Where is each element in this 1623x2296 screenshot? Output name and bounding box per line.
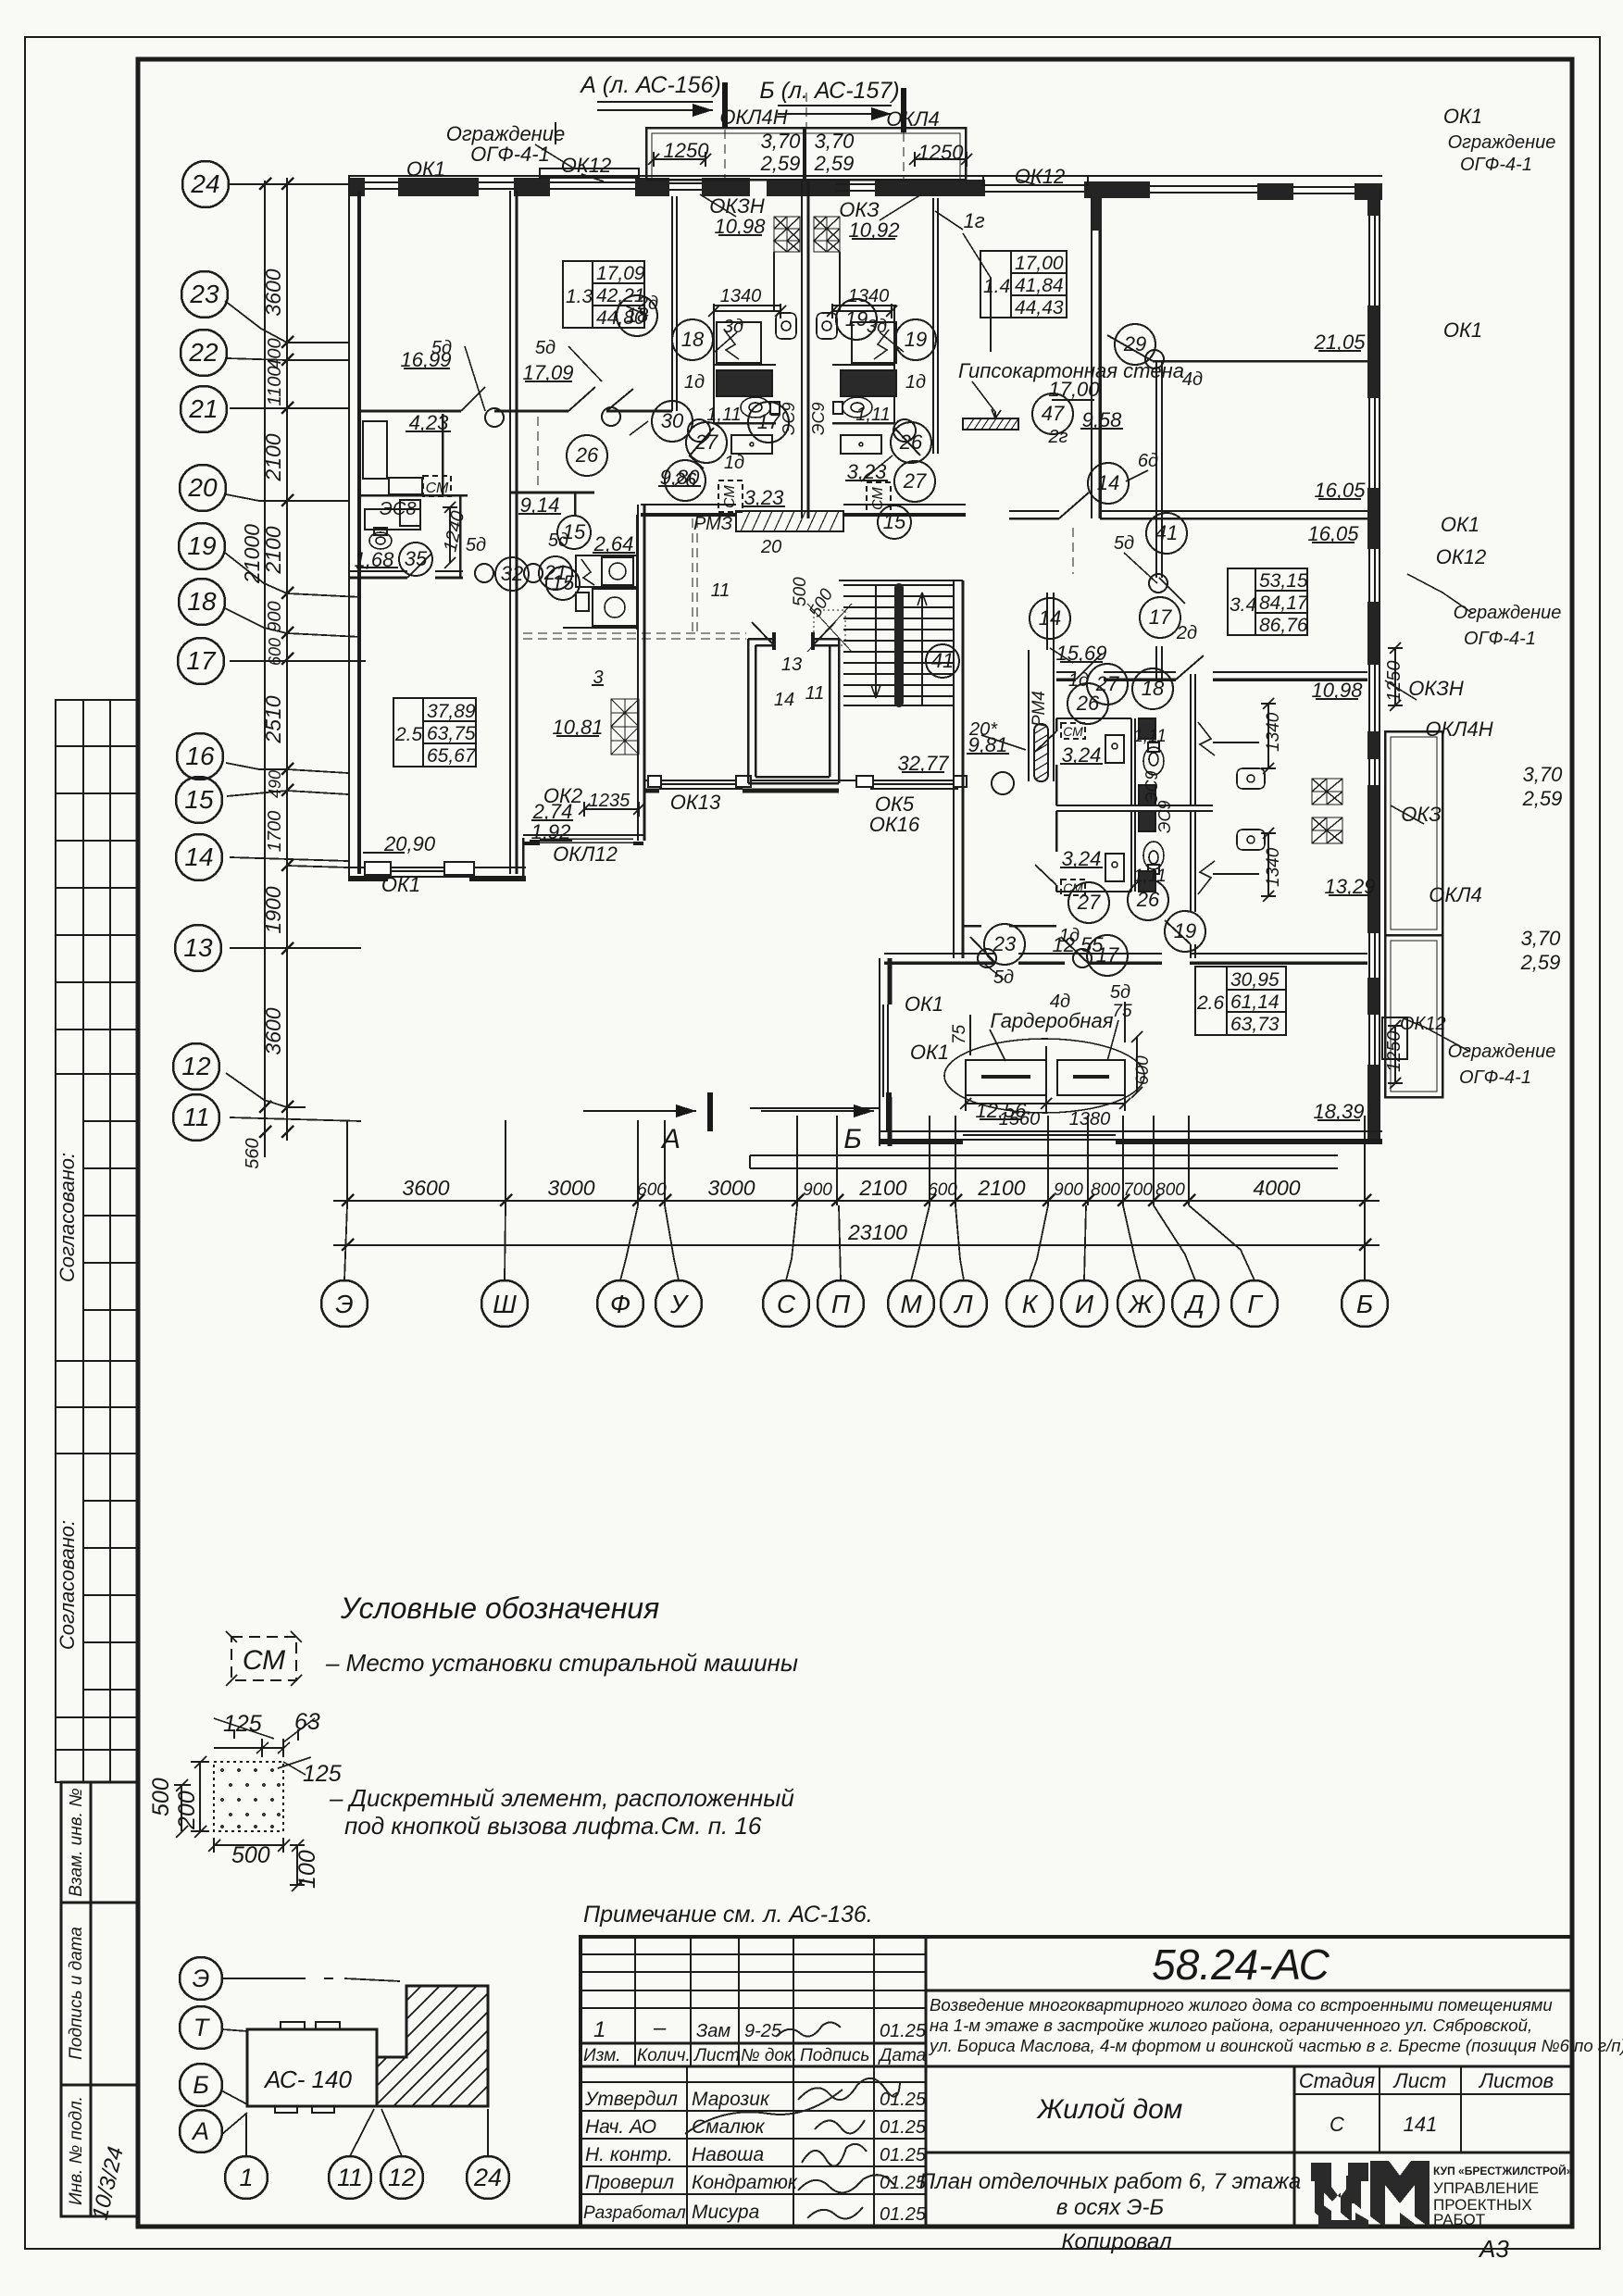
svg-text:ОКЛ4Н: ОКЛ4Н bbox=[719, 106, 787, 129]
svg-text:2д: 2д bbox=[637, 293, 658, 314]
svg-text:23: 23 bbox=[993, 932, 1017, 955]
wall 9,14 bbox=[510, 492, 594, 494]
svg-text:2,59: 2,59 bbox=[1520, 951, 1561, 974]
svg-text:41: 41 bbox=[931, 649, 954, 672]
party wall 2.5/1.3 bbox=[509, 191, 511, 874]
svg-text:24: 24 bbox=[473, 2164, 502, 2191]
svg-text:П: П bbox=[831, 1290, 851, 1318]
kitchen bottom wall with window OKL12 bbox=[523, 834, 643, 836]
svg-text:23100: 23100 bbox=[847, 1220, 907, 1244]
svg-text:800: 800 bbox=[1091, 1180, 1120, 1200]
svg-text:29: 29 bbox=[1123, 332, 1146, 356]
svg-text:ОКЛ4: ОКЛ4 bbox=[1429, 883, 1481, 906]
exterior top wall outer line bbox=[348, 93, 1442, 1168]
svg-text:63,73: 63,73 bbox=[1230, 1014, 1280, 1035]
svg-text:2.6: 2.6 bbox=[1196, 992, 1225, 1014]
svg-text:500: 500 bbox=[791, 577, 810, 606]
stamp rows above bottom cells bbox=[56, 1717, 138, 1782]
svg-text:Проверил: Проверил bbox=[585, 2172, 674, 2193]
svg-text:Инв. № подл.: Инв. № подл. bbox=[67, 2096, 86, 2205]
wall stair to apt2.6 bbox=[953, 792, 955, 958]
svg-text:20: 20 bbox=[187, 473, 218, 502]
svg-text:ОК1: ОК1 bbox=[1443, 318, 1482, 342]
svg-text:37,89: 37,89 bbox=[427, 701, 476, 722]
svg-text:3,70: 3,70 bbox=[1521, 927, 1562, 950]
svg-text:СМ: СМ bbox=[1063, 724, 1083, 739]
section mark A top bbox=[579, 72, 906, 1154]
svg-text:Ж: Ж bbox=[1127, 1290, 1155, 1318]
svg-text:А: А bbox=[191, 2117, 209, 2145]
svg-text:КУП «БРЕСТЖИЛСТРОЙ»: КУП «БРЕСТЖИЛСТРОЙ» bbox=[1433, 2164, 1573, 2177]
svg-text:ул. Бориса Маслова, 4-м фортом: ул. Бориса Маслова, 4-м фортом и воинско… bbox=[928, 2036, 1623, 2055]
key plan leaders bbox=[221, 1978, 488, 2156]
svg-text:600: 600 bbox=[266, 638, 284, 666]
svg-text:100: 100 bbox=[294, 1850, 320, 1889]
svg-text:Н. контр.: Н. контр. bbox=[585, 2144, 673, 2165]
fixtures: kitchen 2,64 block bbox=[576, 555, 637, 626]
RM4 shaft bbox=[1028, 650, 1030, 781]
svg-text:5д: 5д bbox=[1110, 982, 1130, 1003]
svg-text:44,43: 44,43 bbox=[1015, 297, 1064, 318]
svg-text:26: 26 bbox=[1076, 692, 1100, 715]
svg-text:18: 18 bbox=[187, 587, 217, 616]
left dimension chain line bbox=[225, 178, 366, 1157]
svg-text:1.4: 1.4 bbox=[983, 276, 1010, 297]
vent stack bath right bbox=[814, 217, 840, 252]
svg-text:3000: 3000 bbox=[707, 1176, 755, 1200]
top wall piers bbox=[348, 178, 1382, 200]
plan text labels bbox=[355, 105, 1564, 1129]
svg-text:Стадия: Стадия bbox=[1299, 2069, 1376, 2092]
svg-text:ОК1: ОК1 bbox=[905, 992, 943, 1016]
svg-text:27: 27 bbox=[694, 430, 718, 454]
svg-text:Подпись и дата: Подпись и дата bbox=[67, 1927, 86, 2060]
svg-text:24: 24 bbox=[190, 169, 219, 198]
svg-text:5д: 5д bbox=[993, 967, 1014, 988]
svg-text:ОКЛ4: ОКЛ4 bbox=[886, 107, 939, 131]
svg-text:1,11: 1,11 bbox=[855, 405, 890, 425]
svg-text:1100: 1100 bbox=[265, 366, 285, 406]
svg-text:125: 125 bbox=[223, 1711, 262, 1737]
svg-text:3000: 3000 bbox=[547, 1176, 594, 1200]
svg-text:1,11: 1,11 bbox=[1133, 867, 1167, 886]
svg-text:Ограждение: Ограждение bbox=[1454, 603, 1562, 623]
svg-text:900: 900 bbox=[265, 601, 285, 631]
svg-text:Гардеробная: Гардеробная bbox=[990, 1009, 1113, 1032]
right bottom balcony slab OK12 bbox=[1382, 1017, 1407, 1059]
wall 12,55 apt 2.6 top bbox=[884, 953, 1367, 955]
svg-text:17,00: 17,00 bbox=[1015, 253, 1064, 274]
svg-text:01.25: 01.25 bbox=[880, 2021, 927, 2041]
svg-text:500: 500 bbox=[148, 1778, 174, 1816]
svg-text:3,70: 3,70 bbox=[761, 130, 802, 153]
svg-text:14: 14 bbox=[774, 690, 794, 710]
hatched gypsum wall piece bbox=[963, 418, 1018, 430]
fixtures: bath 2.5 bbox=[363, 421, 451, 549]
svg-text:01.25: 01.25 bbox=[880, 2090, 927, 2110]
svg-text:1: 1 bbox=[239, 2164, 253, 2191]
svg-text:35: 35 bbox=[405, 547, 428, 570]
svg-text:1250: 1250 bbox=[918, 141, 965, 164]
svg-text:1235: 1235 bbox=[589, 791, 630, 811]
revision table bbox=[581, 1953, 926, 1955]
stamp cell Инв № подл bbox=[61, 2085, 137, 2216]
svg-text:С: С bbox=[777, 1290, 796, 1318]
svg-text:9-25: 9-25 bbox=[744, 2021, 782, 2041]
svg-text:Б: Б bbox=[843, 1124, 862, 1154]
svg-text:Копировал: Копировал bbox=[1061, 2229, 1172, 2254]
stair arrows bbox=[918, 593, 927, 705]
key plan axis circles bbox=[180, 1957, 509, 2199]
svg-text:К: К bbox=[1022, 1290, 1039, 1318]
legend washing machine symbol bbox=[226, 1631, 302, 1686]
svg-text:ОК1: ОК1 bbox=[910, 1041, 949, 1064]
svg-text:РМ4: РМ4 bbox=[1030, 691, 1049, 727]
left exterior wall bbox=[348, 176, 350, 880]
top wall windows bbox=[365, 182, 1355, 193]
svg-text:Жилой дом: Жилой дом bbox=[1036, 2094, 1183, 2125]
svg-text:1.3: 1.3 bbox=[566, 286, 593, 307]
svg-text:У: У bbox=[669, 1290, 690, 1318]
svg-text:1340: 1340 bbox=[1264, 847, 1283, 887]
top balcony dims bbox=[443, 152, 1403, 1111]
svg-text:30,95: 30,95 bbox=[1230, 969, 1280, 991]
right cells bbox=[926, 1990, 1572, 1992]
svg-text:4д: 4д bbox=[1182, 369, 1203, 390]
svg-text:Г: Г bbox=[1247, 1290, 1263, 1318]
svg-text:Б (л. АС-157): Б (л. АС-157) bbox=[759, 78, 899, 104]
svg-text:– Дискретный элемент, располож: – Дискретный элемент, расположенный bbox=[329, 1784, 794, 1812]
door leaves bbox=[407, 387, 1204, 963]
svg-text:1340: 1340 bbox=[720, 286, 762, 306]
stamp cell Согласовано 2 bbox=[56, 1454, 138, 1717]
svg-text:Разработал: Разработал bbox=[583, 2203, 686, 2223]
vent duct walls bath bbox=[773, 252, 775, 311]
svg-text:Э: Э bbox=[335, 1290, 353, 1318]
svg-text:2100: 2100 bbox=[858, 1176, 906, 1200]
wardrobe closets apt 2.6 bbox=[944, 1039, 1144, 1113]
svg-text:ЭС9: ЭС9 bbox=[809, 403, 828, 436]
right block party wall x1179 bbox=[1091, 194, 1092, 518]
section mark B bottom bbox=[761, 1110, 874, 1112]
interior: partition y444 rooms 16,99/17,09 bbox=[361, 410, 672, 413]
svg-text:53,15: 53,15 bbox=[1259, 570, 1308, 592]
svg-text:С: С bbox=[1330, 2113, 1344, 2136]
svg-text:01.25: 01.25 bbox=[880, 2173, 927, 2193]
bath 1.3 interior walls bbox=[714, 305, 780, 306]
signature table bbox=[581, 2081, 926, 2083]
svg-text:11: 11 bbox=[182, 1103, 209, 1131]
svg-text:19: 19 bbox=[905, 328, 927, 351]
svg-text:Ш: Ш bbox=[493, 1290, 517, 1318]
svg-text:Д: Д bbox=[1183, 1290, 1205, 1318]
svg-text:1250: 1250 bbox=[664, 139, 710, 162]
svg-text:1250: 1250 bbox=[1384, 1031, 1405, 1073]
svg-text:1,11: 1,11 bbox=[1133, 727, 1167, 746]
svg-text:2д: 2д bbox=[1176, 623, 1197, 643]
right balcony OKL4N bbox=[1385, 731, 1442, 935]
svg-text:Примечание см. л. АС-136.: Примечание см. л. АС-136. bbox=[583, 1902, 873, 1928]
svg-text:Навоша: Навоша bbox=[692, 2144, 764, 2165]
svg-text:47: 47 bbox=[1042, 402, 1065, 425]
svg-text:ОКЛ4Н: ОКЛ4Н bbox=[1425, 717, 1492, 741]
stamp mid rows bbox=[56, 1361, 138, 1454]
svg-text:21000: 21000 bbox=[240, 524, 264, 584]
svg-text:РМЗ: РМЗ bbox=[693, 514, 732, 534]
svg-text:11: 11 bbox=[711, 580, 730, 601]
svg-text:Дата: Дата bbox=[878, 2046, 926, 2065]
svg-text:41: 41 bbox=[1155, 521, 1178, 544]
svg-text:800: 800 bbox=[1155, 1180, 1185, 1200]
svg-text:1340: 1340 bbox=[848, 286, 890, 306]
svg-text:ЭС9: ЭС9 bbox=[780, 403, 798, 436]
svg-text:ОК12: ОК12 bbox=[1015, 165, 1066, 188]
handwritten signatures bbox=[685, 2022, 900, 2218]
title block outer bbox=[581, 1937, 1572, 2227]
title block texts bbox=[583, 1902, 1623, 2263]
svg-text:Зам: Зам bbox=[696, 2021, 730, 2041]
bottom dimension chain bbox=[333, 1116, 1380, 1280]
corridor bottom wall with windows OK13 OK5 bbox=[644, 780, 966, 781]
svg-text:ЭС9: ЭС9 bbox=[1142, 771, 1161, 805]
svg-text:14: 14 bbox=[1039, 606, 1061, 630]
svg-text:700: 700 bbox=[1123, 1180, 1153, 1200]
right exterior wall bbox=[1379, 188, 1380, 1144]
balcony OKL4N top center bbox=[646, 128, 966, 180]
stair treads bbox=[843, 585, 954, 705]
svg-text:11: 11 bbox=[337, 2164, 363, 2191]
svg-text:3д: 3д bbox=[723, 317, 743, 337]
svg-text:Мисура: Мисура bbox=[692, 2202, 759, 2223]
apartment box 3.4 bbox=[1228, 568, 1309, 636]
svg-text:26: 26 bbox=[575, 443, 599, 467]
svg-text:СМ: СМ bbox=[1063, 880, 1083, 895]
svg-text:600: 600 bbox=[928, 1180, 957, 1200]
svg-text:2,59: 2,59 bbox=[814, 152, 855, 175]
svg-text:12: 12 bbox=[388, 2164, 416, 2191]
svg-text:86,76: 86,76 bbox=[1259, 615, 1308, 636]
svg-text:22: 22 bbox=[188, 338, 218, 367]
svg-text:СМ: СМ bbox=[426, 480, 449, 496]
corridor top wall RM3 bbox=[641, 504, 966, 505]
svg-text:75: 75 bbox=[1112, 1002, 1132, 1021]
svg-text:ОК1: ОК1 bbox=[381, 873, 420, 896]
wall x1252 segment 2 bbox=[1156, 646, 1162, 680]
svg-text:– Место установки стиральной м: – Место установки стиральной машины bbox=[325, 1649, 798, 1677]
svg-text:ОК12: ОК12 bbox=[1400, 1014, 1446, 1034]
svg-text:14: 14 bbox=[184, 842, 213, 871]
right wall piers bbox=[1367, 188, 1380, 1144]
svg-text:500: 500 bbox=[231, 1842, 270, 1868]
logo КУП Брестжилстрой bbox=[1311, 2161, 1429, 2227]
left extension lines to plan bbox=[230, 184, 366, 1121]
svg-text:3,70: 3,70 bbox=[1523, 763, 1564, 786]
svg-text:ЭС8: ЭС8 bbox=[380, 499, 416, 519]
svg-text:№ док.: № док. bbox=[741, 2046, 797, 2065]
label underlines bbox=[356, 235, 1371, 1120]
svg-text:200: 200 bbox=[174, 1791, 200, 1830]
svg-text:1,11: 1,11 bbox=[706, 405, 741, 425]
svg-text:3,70: 3,70 bbox=[815, 130, 855, 153]
svg-text:3600: 3600 bbox=[261, 1007, 285, 1054]
svg-text:400: 400 bbox=[265, 338, 285, 368]
legend dims bbox=[214, 1739, 290, 1757]
svg-text:32: 32 bbox=[501, 562, 523, 585]
svg-text:ОКЛ12: ОКЛ12 bbox=[553, 842, 618, 866]
svg-text:3600: 3600 bbox=[261, 268, 285, 316]
kitchen right / corridor left wall bbox=[637, 505, 639, 841]
svg-text:Лист: Лист bbox=[1392, 2069, 1447, 2092]
svg-text:6д: 6д bbox=[1138, 451, 1158, 471]
svg-text:А (л. АС-156): А (л. АС-156) bbox=[579, 72, 721, 98]
svg-text:600: 600 bbox=[1133, 1055, 1153, 1085]
dashed projection lines bbox=[523, 93, 1073, 639]
svg-text:75: 75 bbox=[950, 1024, 969, 1044]
svg-text:5д: 5д bbox=[548, 530, 568, 551]
lower terrace thin band bbox=[750, 1155, 1338, 1168]
svg-text:58.24-АС: 58.24-АС bbox=[1152, 1940, 1330, 1989]
svg-text:Марозик: Марозик bbox=[692, 2089, 770, 2110]
bottom extension lines bbox=[347, 1116, 1365, 1205]
RM4 hatched duct bbox=[1034, 724, 1048, 781]
svg-text:Возведение многоквартирного жи: Возведение многоквартирного жилого дома … bbox=[930, 1995, 1553, 2015]
svg-text:1д: 1д bbox=[724, 453, 744, 473]
svg-text:01.25: 01.25 bbox=[880, 2204, 927, 2225]
svg-text:63: 63 bbox=[294, 1709, 320, 1735]
svg-text:Ф: Ф bbox=[610, 1290, 630, 1318]
svg-text:Ограждение: Ограждение bbox=[1448, 132, 1556, 153]
svg-text:21: 21 bbox=[543, 561, 567, 584]
svg-text:РАБОТ: РАБОТ bbox=[1433, 2211, 1485, 2228]
svg-text:2100: 2100 bbox=[261, 526, 285, 574]
stamp cell Взам инв № bbox=[61, 1782, 137, 1903]
apartment box 1.4 bbox=[980, 251, 1067, 318]
svg-text:План отделочных работ 6, 7 эта: План отделочных работ 6, 7 этажа bbox=[919, 2169, 1301, 2194]
apartment data boxes bbox=[393, 251, 1309, 1035]
svg-text:4000: 4000 bbox=[1253, 1176, 1300, 1200]
svg-text:2,59: 2,59 bbox=[1522, 787, 1563, 810]
vent stack right block upper bbox=[1312, 779, 1342, 843]
svg-text:А3: А3 bbox=[1478, 2235, 1509, 2263]
svg-text:Взам. инв. №: Взам. инв. № bbox=[67, 1788, 86, 1897]
leader circles small bbox=[475, 350, 1167, 967]
party wall 1.3/1.4 bbox=[801, 180, 803, 518]
svg-text:19: 19 bbox=[187, 531, 216, 560]
svg-text:СМ: СМ bbox=[870, 487, 886, 510]
svg-text:–: – bbox=[653, 2015, 667, 2040]
svg-text:Ограждение: Ограждение bbox=[1448, 1042, 1556, 1062]
section mark A bottom bbox=[583, 1110, 696, 1112]
svg-text:Лист: Лист bbox=[693, 2046, 740, 2065]
svg-text:17,00: 17,00 bbox=[1048, 378, 1100, 401]
svg-text:Условные обозначения: Условные обозначения bbox=[340, 1591, 659, 1625]
wall y556 bbox=[1009, 510, 1367, 512]
svg-text:15: 15 bbox=[184, 785, 214, 814]
svg-text:Э: Э bbox=[193, 1965, 210, 1992]
svg-text:17: 17 bbox=[186, 646, 217, 675]
svg-text:41,84: 41,84 bbox=[1015, 275, 1064, 296]
svg-text:13: 13 bbox=[183, 933, 213, 962]
svg-text:ОГФ-4-1: ОГФ-4-1 bbox=[1460, 155, 1532, 175]
svg-text:01.25: 01.25 bbox=[880, 2145, 927, 2165]
svg-text:3.4: 3.4 bbox=[1230, 594, 1256, 616]
svg-text:19: 19 bbox=[1174, 919, 1196, 942]
bottom axis leaders bbox=[344, 1205, 1365, 1280]
svg-text:Т: Т bbox=[194, 2014, 211, 2041]
svg-text:Б: Б bbox=[1356, 1290, 1373, 1318]
svg-text:490: 490 bbox=[266, 770, 284, 798]
svg-text:1г: 1г bbox=[963, 209, 984, 232]
svg-text:Согласовано:: Согласовано: bbox=[56, 1520, 79, 1650]
fixtures: right bath cluster bbox=[1061, 718, 1265, 895]
svg-text:27: 27 bbox=[903, 469, 927, 493]
svg-text:16: 16 bbox=[185, 742, 215, 770]
apartment box 1.3 bbox=[563, 261, 645, 329]
svg-text:5д: 5д bbox=[535, 338, 556, 358]
svg-text:17,09: 17,09 bbox=[596, 263, 645, 284]
svg-text:141: 141 bbox=[1404, 2113, 1438, 2136]
svg-text:14: 14 bbox=[1097, 471, 1119, 494]
legend discrete element symbol bbox=[148, 1709, 342, 1891]
stamp cell Подпись и дата bbox=[61, 1903, 137, 2085]
svg-text:2г: 2г bbox=[1048, 427, 1068, 447]
svg-text:900: 900 bbox=[803, 1180, 832, 1200]
svg-text:1д: 1д bbox=[684, 372, 705, 393]
svg-text:125: 125 bbox=[303, 1761, 342, 1787]
svg-text:1240: 1240 bbox=[440, 509, 468, 554]
svg-text:Листов: Листов bbox=[1478, 2069, 1554, 2092]
left ticks with slashes bbox=[259, 178, 293, 1138]
apt 2.5 bottom wall with window OK1 bbox=[348, 867, 526, 868]
svg-text:18: 18 bbox=[1142, 677, 1165, 700]
svg-text:10/3/24: 10/3/24 bbox=[88, 2144, 129, 2222]
svg-text:Кондратюк: Кондратюк bbox=[692, 2172, 798, 2193]
wall x1252 segment 1 bbox=[1156, 361, 1162, 578]
svg-text:3д: 3д bbox=[867, 317, 887, 337]
bottom dim labels bbox=[402, 1176, 1300, 1244]
svg-text:ОК1: ОК1 bbox=[406, 157, 445, 181]
svg-text:2510: 2510 bbox=[261, 695, 285, 743]
bottom axis circles bbox=[321, 1280, 1388, 1327]
svg-text:13: 13 bbox=[781, 655, 802, 675]
numbered bubbles bbox=[399, 295, 1205, 976]
svg-text:12: 12 bbox=[181, 1052, 211, 1080]
left stamp column grid bbox=[56, 700, 138, 2216]
discrete element dotted square at lift button bbox=[807, 604, 852, 652]
svg-text:на 1-м этаже в застройке жилог: на 1-м этаже в застройке жилого района, … bbox=[930, 2015, 1532, 2035]
closet 2,64 walls bbox=[636, 515, 639, 630]
leader lines misc bbox=[465, 122, 1472, 1061]
svg-text:17: 17 bbox=[1149, 605, 1172, 629]
stamp vertical labels bbox=[56, 1153, 129, 2223]
svg-text:АС- 140: АС- 140 bbox=[263, 2065, 352, 2093]
svg-text:1340: 1340 bbox=[1264, 712, 1283, 752]
bath block 1.3 left wall bbox=[671, 196, 673, 411]
svg-text:Нач. АО: Нач. АО bbox=[585, 2116, 656, 2138]
elevator shaft bbox=[748, 632, 839, 783]
svg-text:01.25: 01.25 bbox=[880, 2117, 927, 2138]
svg-text:Изм.: Изм. bbox=[583, 2046, 621, 2065]
svg-text:под кнопкой вызова лифта.См. п: под кнопкой вызова лифта.См. п. 16 bbox=[344, 1812, 762, 1840]
svg-text:18: 18 bbox=[681, 328, 705, 351]
svg-text:500: 500 bbox=[805, 585, 837, 620]
gypsum wall 1g bbox=[932, 198, 934, 454]
svg-text:65,67: 65,67 bbox=[427, 745, 477, 767]
svg-text:2100: 2100 bbox=[261, 433, 285, 481]
apt 2.6 left wall with window bbox=[879, 958, 880, 1146]
svg-text:ОК13: ОК13 bbox=[670, 791, 721, 814]
wall y392 with door bbox=[1153, 360, 1367, 363]
